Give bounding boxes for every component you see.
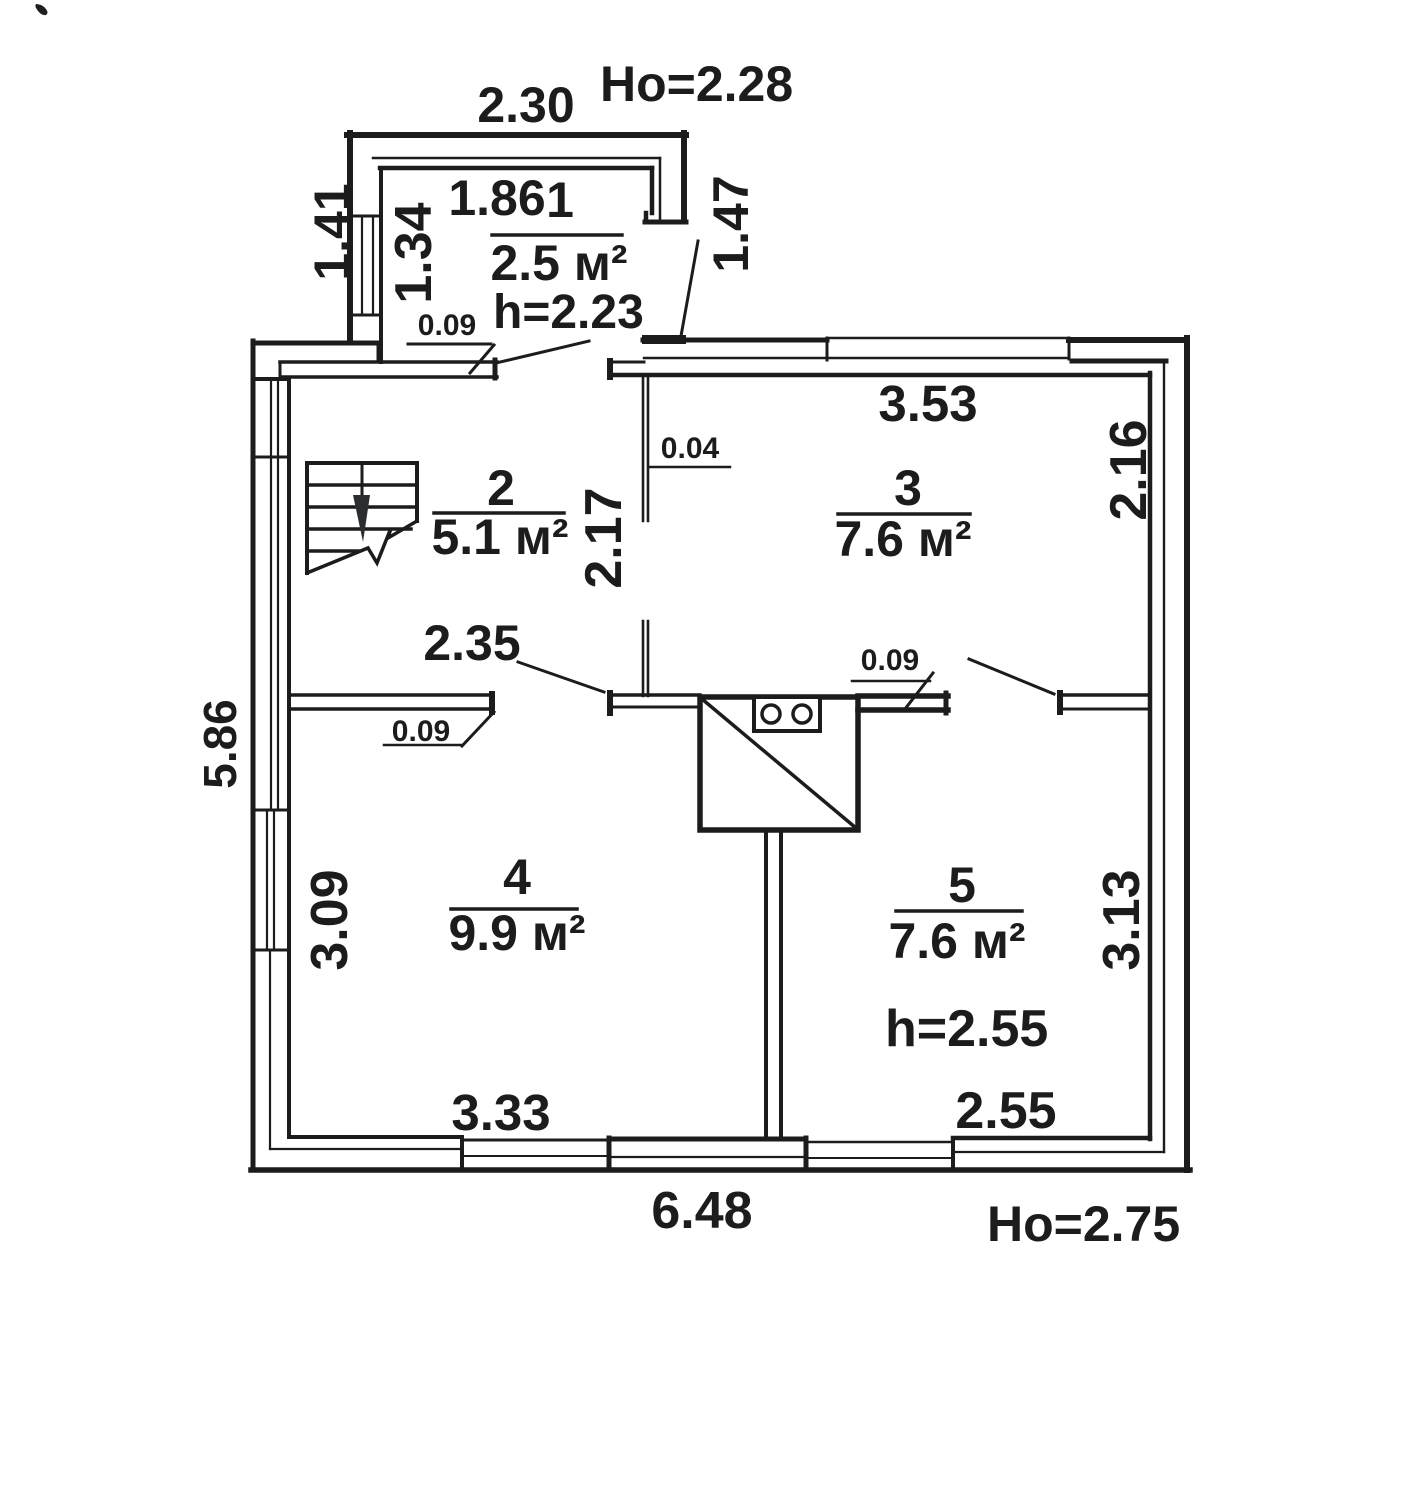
- stove cooktop box: [754, 697, 820, 731]
- svg-text:5.1 м²: 5.1 м²: [431, 509, 568, 565]
- bottom window3 mid line: [806, 1157, 953, 1159]
- svg-text:0.09: 0.09: [861, 644, 919, 677]
- top wall thin line segment: [610, 361, 644, 364]
- svg-text:1.86: 1.86: [448, 170, 545, 226]
- bottom window1 top line: [462, 1139, 608, 1142]
- stairs outline: [307, 463, 417, 573]
- bottom wall middle right line: [953, 1151, 1164, 1153]
- svg-text:3: 3: [894, 460, 922, 516]
- svg-text:2.16: 2.16: [1100, 419, 1158, 520]
- porch inner wall top thin line: [373, 157, 660, 160]
- svg-text:9.9 м²: 9.9 м²: [448, 905, 585, 961]
- left wall window cap y457: [253, 456, 289, 459]
- stairs tread 4: [307, 549, 358, 553]
- svg-text:3.09: 3.09: [301, 869, 359, 970]
- wall rooms2-4 end cap: [489, 694, 495, 712]
- top wall room3 jamb left: [607, 361, 613, 377]
- svg-text:0.04: 0.04: [661, 432, 720, 465]
- thin partition top line room2-porch: [280, 360, 497, 364]
- dim underline 0.09 kitchen: [852, 680, 930, 683]
- left wall window pane b mid: [273, 810, 275, 950]
- svg-text:0.09: 0.09: [418, 309, 476, 342]
- partition rooms2-3 lower line a: [642, 621, 645, 696]
- dim slash 0.09 kitchen: [905, 673, 933, 709]
- bottom wall middle left line: [270, 1148, 461, 1150]
- wall rooms4-5 line a: [764, 830, 768, 1139]
- top wall outer right segment: [1069, 337, 1187, 343]
- svg-text:3.53: 3.53: [878, 375, 977, 432]
- porch left window pane line a: [361, 216, 363, 315]
- svg-text:Но=2.75: Но=2.75: [987, 1196, 1180, 1252]
- stairs tread 1: [307, 483, 417, 487]
- bottom window3 top line: [806, 1141, 953, 1144]
- porch inner wall right thin line: [659, 158, 662, 219]
- fraction bar room3: [838, 512, 970, 516]
- leader 1.47: [681, 241, 698, 336]
- porch inner wall right thick line: [650, 168, 655, 213]
- left wall window pane a upper: [270, 380, 272, 810]
- kitchen wall right end cap: [944, 693, 949, 713]
- bottom window2 cap left: [607, 1138, 612, 1170]
- porch left window bottom cap: [350, 314, 381, 317]
- svg-text:h=2.23: h=2.23: [493, 286, 644, 339]
- svg-text:6.48: 6.48: [651, 1182, 752, 1240]
- right wall outer line: [1184, 338, 1190, 1170]
- right wall inner line: [1148, 373, 1153, 1139]
- svg-text:3.13: 3.13: [1093, 869, 1151, 970]
- svg-text:2.35: 2.35: [423, 615, 520, 671]
- wall rooms3-5 top line: [1060, 693, 1150, 697]
- bottom wall inner right line: [953, 1136, 1150, 1141]
- bottom window2 mid line: [609, 1156, 806, 1158]
- stairs down arrow: [353, 495, 370, 542]
- house left wall inner line: [287, 379, 291, 1137]
- svg-text:7.6 м²: 7.6 м²: [888, 913, 1025, 969]
- stairs stringer: [361, 463, 364, 497]
- svg-text:4: 4: [503, 849, 531, 905]
- bottom window2 cap right: [804, 1138, 809, 1170]
- top-right inner thick corner line: [1072, 359, 1166, 364]
- house left wall inner cap: [253, 377, 289, 381]
- left wall window pane b upper: [277, 380, 279, 810]
- wall rooms2-4 bottom line: [289, 707, 493, 711]
- right wall mid window line: [1163, 361, 1165, 1152]
- leader 2.35: [518, 662, 604, 692]
- thin partition bottom line room2-porch: [281, 375, 497, 379]
- bottom window1 mid line: [462, 1155, 608, 1157]
- leader h=2.23 to door: [496, 341, 589, 363]
- porch left inner wall line: [379, 168, 383, 362]
- porch door jamb foot: [644, 213, 649, 222]
- bottom wall inner left line: [289, 1135, 462, 1139]
- wall rooms2-4 top line: [289, 693, 493, 697]
- fraction bar room2: [434, 511, 564, 515]
- svg-text:5.86: 5.86: [194, 699, 246, 789]
- stairs tread 2: [307, 505, 417, 509]
- top wall mid thin line: [644, 357, 1069, 359]
- svg-text:0.09: 0.09: [392, 715, 450, 748]
- scan speck top-left: [35, 4, 47, 15]
- threshold black cap at porch: [642, 335, 686, 344]
- porch left window top cap: [350, 215, 381, 218]
- porch outer wall right: [681, 133, 687, 221]
- wall rooms3-5 bottom line: [1060, 708, 1150, 711]
- svg-text:2.30: 2.30: [477, 77, 574, 133]
- dim slash 0.09 left: [462, 712, 494, 746]
- stove body: [700, 697, 858, 830]
- bottom window2 top line: [609, 1137, 806, 1142]
- wall rooms3-5 right jamb: [1057, 693, 1063, 712]
- porch inner wall top thick line: [380, 166, 652, 171]
- left wall window pane a mid: [266, 810, 268, 950]
- stairs break line: [307, 521, 417, 573]
- kitchen wall left jamb: [607, 693, 613, 713]
- svg-text:2.5 м²: 2.5 м²: [490, 235, 627, 291]
- porch door jamb left: [493, 360, 498, 378]
- partition rooms2-3 upper line b: [647, 377, 650, 521]
- porch left window pane line b: [372, 216, 374, 315]
- svg-text:h=2.55: h=2.55: [885, 1000, 1048, 1058]
- top wall outer line right of porch: [643, 338, 827, 343]
- kitchen wall right top line: [858, 693, 948, 699]
- svg-text:2.55: 2.55: [955, 1082, 1056, 1140]
- svg-text:Но=2.28: Но=2.28: [600, 56, 793, 112]
- top window thin outer line: [827, 337, 1069, 340]
- stairs tread 3: [307, 527, 411, 531]
- top window cap x827: [826, 338, 829, 360]
- left wall window cap y810: [253, 809, 289, 812]
- stove burner right: [793, 705, 811, 723]
- svg-text:1.47: 1.47: [703, 175, 759, 272]
- house left wall outer line: [251, 341, 256, 1170]
- svg-text:5: 5: [948, 857, 976, 913]
- svg-text:1.41: 1.41: [304, 183, 360, 280]
- porch right wall bottom cap: [645, 220, 686, 225]
- svg-text:1: 1: [546, 172, 574, 228]
- dim underline 0.09 left: [384, 744, 462, 747]
- kitchen wall left bottom line: [610, 706, 700, 709]
- kitchen wall left top line: [610, 693, 700, 697]
- top window cap x1069: [1068, 338, 1071, 359]
- thin partition step: [279, 362, 282, 377]
- porch outer wall top: [347, 132, 686, 138]
- kitchen wall right bottom line: [858, 707, 948, 713]
- svg-text:2: 2: [487, 460, 515, 516]
- fraction bar room4: [451, 907, 577, 911]
- partition rooms2-3 lower line b: [647, 621, 650, 696]
- fraction bar room5: [896, 909, 1022, 913]
- house top wall jog under porch: [377, 343, 382, 361]
- bottom window3 cap right: [951, 1139, 955, 1170]
- dim underline 0.04: [650, 466, 730, 469]
- dim underline 0.09 porch: [408, 343, 491, 346]
- svg-text:7.6 м²: 7.6 м²: [834, 511, 971, 567]
- stove diagonal: [702, 699, 856, 828]
- top wall inner surface line room3: [610, 373, 1150, 378]
- left wall lower middle line: [269, 950, 271, 1149]
- partition rooms2-3 upper line a: [642, 377, 645, 521]
- wall rooms4-5 line b: [779, 830, 783, 1139]
- svg-text:2.17: 2.17: [575, 487, 633, 588]
- dim slash 0.09 porch: [470, 345, 494, 373]
- leader to wall rooms3-5: [969, 659, 1054, 694]
- bottom wall outer line: [251, 1167, 1190, 1173]
- stove burner left: [762, 705, 780, 723]
- bottom window1 cap left: [460, 1137, 464, 1170]
- svg-text:1.34: 1.34: [385, 202, 443, 303]
- svg-text:3.33: 3.33: [451, 1084, 550, 1141]
- left wall window cap y950: [253, 949, 289, 952]
- porch outer wall left: [347, 133, 353, 342]
- fraction bar room1: [492, 233, 622, 237]
- house top wall outer left segment: [253, 341, 379, 346]
